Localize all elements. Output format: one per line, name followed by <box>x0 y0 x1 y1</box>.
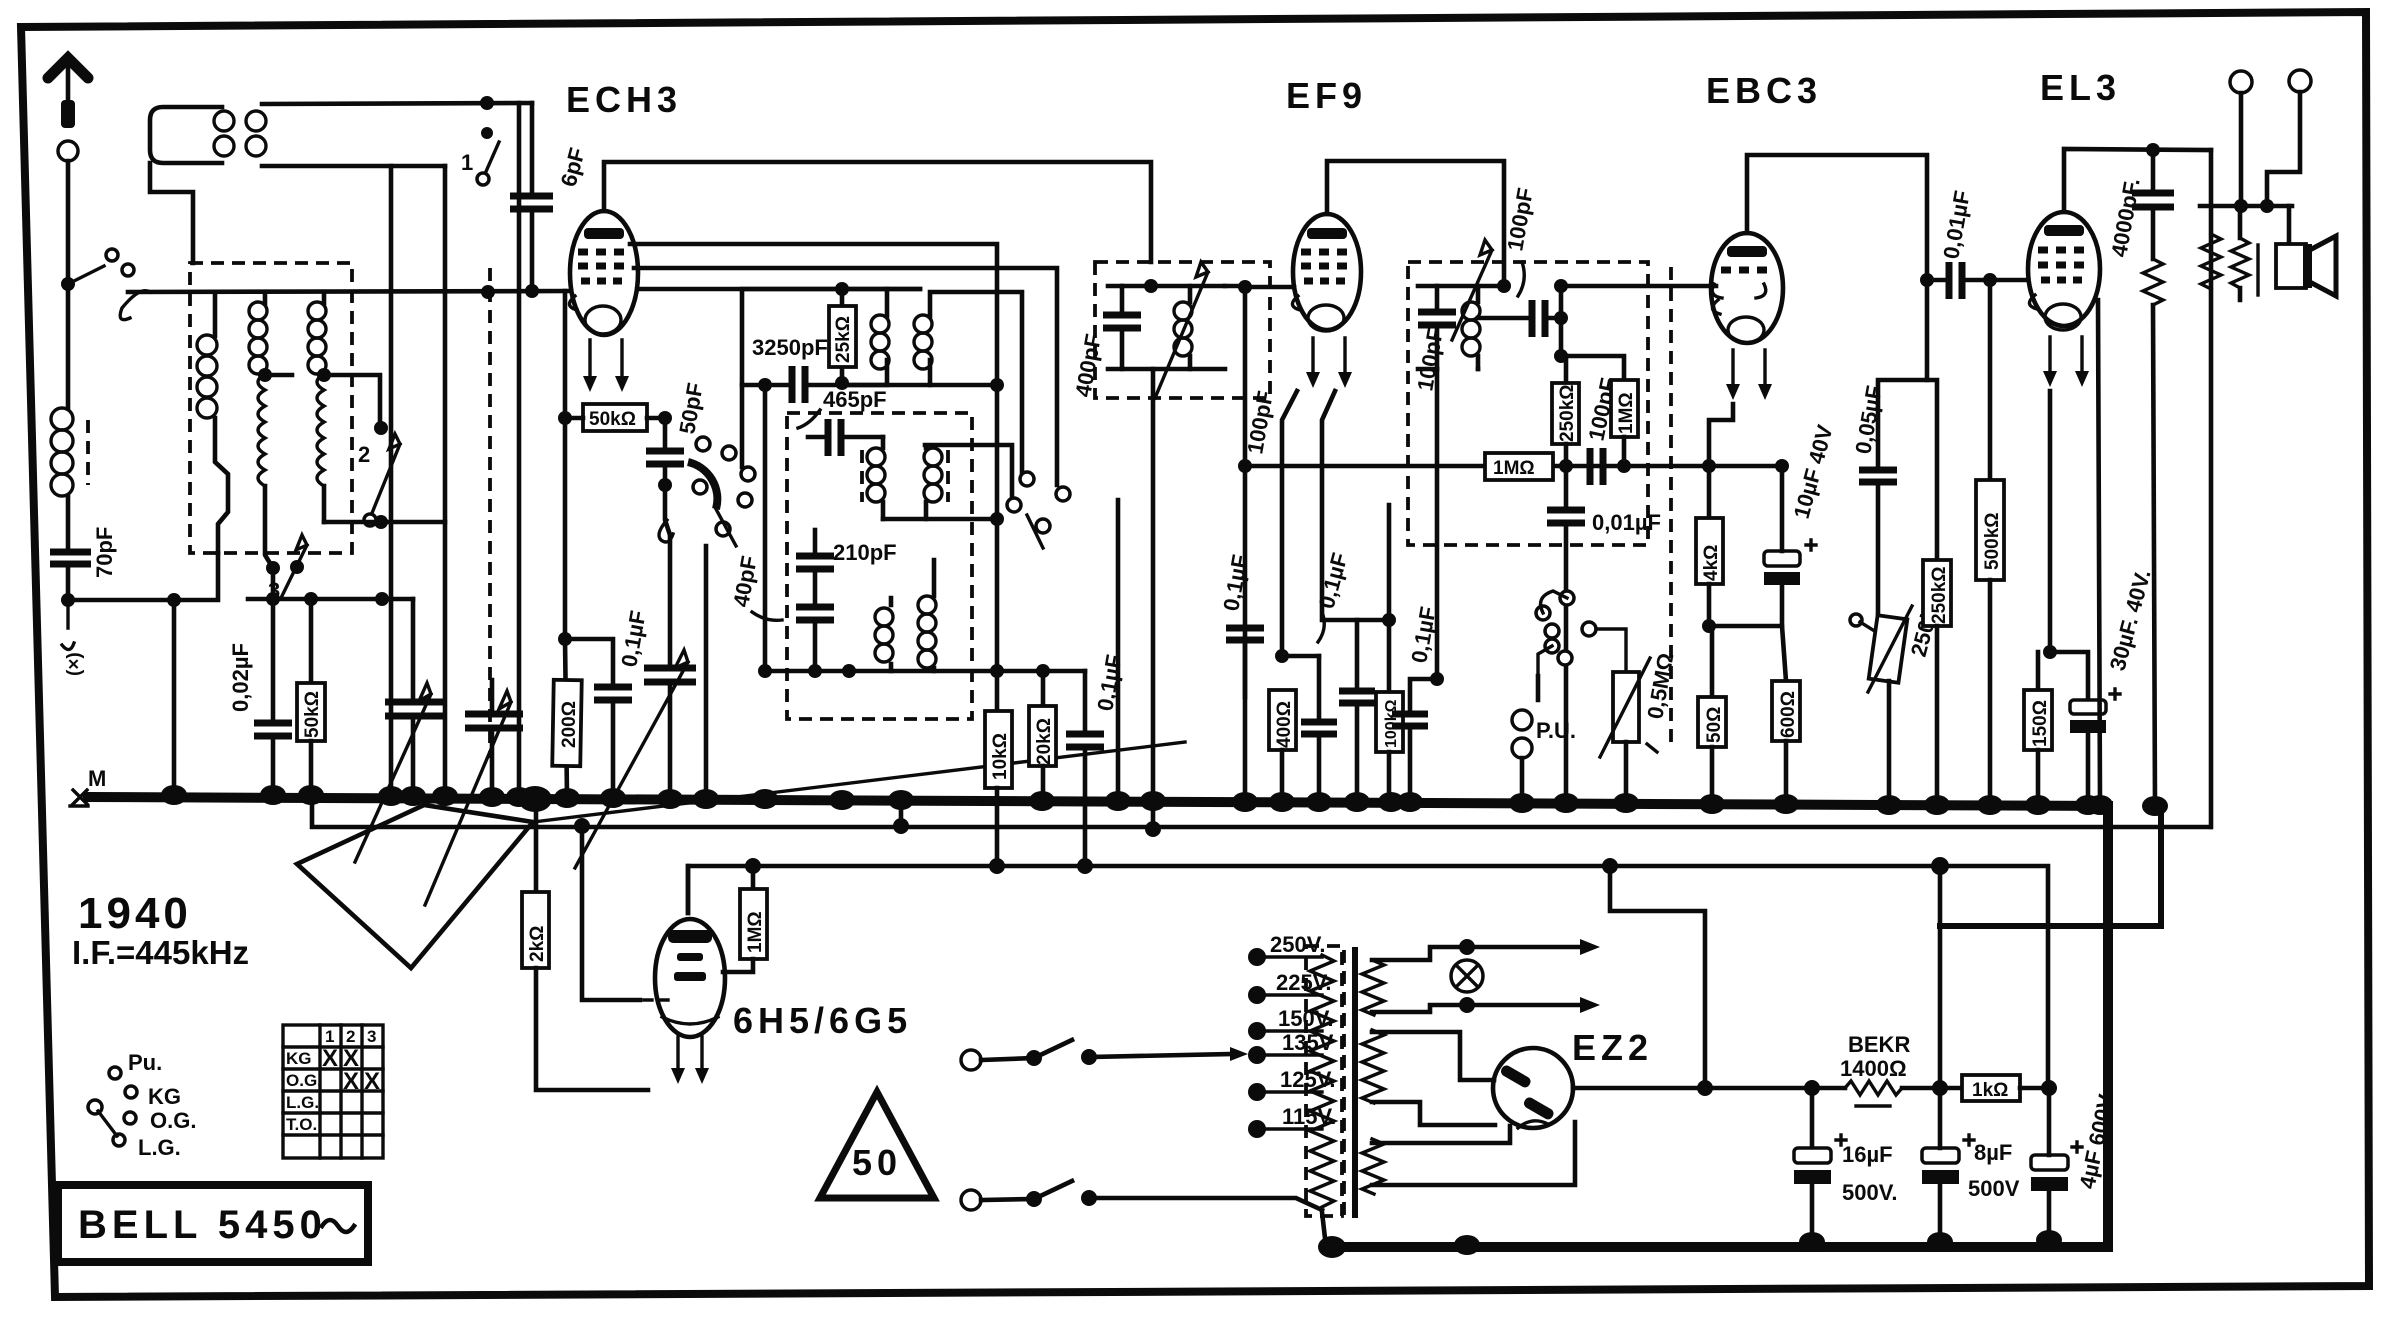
capacitor 30uF 40V <box>2050 652 2088 700</box>
wire thick elbow <box>1940 808 2161 926</box>
IF2 trimmer arrow <box>1452 240 1492 340</box>
wire ECH3 osc grid line <box>634 268 1057 485</box>
wire secondary top edge <box>262 103 532 104</box>
terminal 1 <box>2230 71 2252 93</box>
svg-text:70pF: 70pF <box>92 527 117 578</box>
svg-text:O.G.: O.G. <box>286 1071 322 1090</box>
polarity marks <box>1806 540 2120 1152</box>
wire EF9 plate top <box>1327 161 1504 286</box>
potentiometer 0.5MOhm <box>1613 672 1639 742</box>
resistor tone zigzag <box>2143 259 2163 305</box>
IF1 trimmer arrow <box>1155 262 1208 398</box>
junction dots on M bus <box>161 785 2168 816</box>
variable capacitor VC3 osc <box>668 535 673 666</box>
wire node to RC <box>1561 318 1624 380</box>
coil padder section B <box>918 596 936 668</box>
svg-text:L.G.: L.G. <box>286 1093 319 1112</box>
antenna terminal <box>58 141 78 161</box>
svg-text:O.G.: O.G. <box>150 1108 196 1133</box>
svg-text:400Ω: 400Ω <box>1274 701 1295 748</box>
wire AF line y466 <box>1245 464 1782 469</box>
svg-text:BEKR: BEKR <box>1848 1032 1910 1057</box>
junction dots on B+ line <box>745 857 1949 875</box>
svg-text:25kΩ: 25kΩ <box>833 316 854 363</box>
switch 4 contacts <box>1020 472 1034 486</box>
svg-text:6H5/6G5: 6H5/6G5 <box>733 1000 912 1041</box>
svg-text:50kΩ: 50kΩ <box>589 409 636 430</box>
resistor 400R <box>1269 690 1296 750</box>
wire ECH3 plate to top <box>604 162 1151 262</box>
capacitor 70pF <box>50 552 91 564</box>
resistor 2kOhm <box>534 810 539 892</box>
capacitor 0.1uF cathode <box>565 639 613 684</box>
heater winding <box>1362 960 1384 1015</box>
wire grid line y291 <box>128 291 571 292</box>
resistor 150R <box>2036 652 2041 690</box>
wire B+ line <box>688 866 2048 1087</box>
wire left vertical to bus <box>389 166 394 796</box>
resistor 1MOhm det <box>1611 380 1638 437</box>
wire IF1 secondary to EF9 grid <box>1225 286 1245 697</box>
resistor field coil zigzag <box>2201 234 2221 289</box>
transformer primary winding <box>1310 955 1334 1207</box>
svg-text:210pF: 210pF <box>833 540 897 565</box>
dashed box oscillator padder <box>787 413 972 719</box>
wire IF1 bottom to B+ <box>1151 369 1156 806</box>
dots on ground loop <box>1318 1230 2062 1258</box>
svg-text:0,02µF: 0,02µF <box>228 643 253 712</box>
PU jack <box>1512 710 1532 730</box>
svg-text:EL3: EL3 <box>2040 67 2121 108</box>
svg-text:ECH3: ECH3 <box>566 79 682 120</box>
switch table <box>283 1025 383 1158</box>
resistor 10kOhm <box>995 671 1000 711</box>
wire EZ2 cathode out <box>1573 1086 1705 1091</box>
wire ECH3 g2 line <box>630 244 997 671</box>
svg-text:50Ω: 50Ω <box>1704 707 1725 743</box>
aerial secondary racetrack <box>246 111 266 156</box>
IF transformer 2 dashed can + detector box <box>1408 262 1648 545</box>
svg-text:1MΩ: 1MΩ <box>1616 392 1637 434</box>
wire diode to EBC3 grid <box>1561 286 1716 318</box>
rotary bandswitch osc <box>659 437 755 546</box>
aerial coupling transformer left racetrack <box>150 107 222 163</box>
wire screen dropper x1118 <box>1116 500 1121 801</box>
node bus left mark <box>70 790 88 806</box>
voice coil zigzag <box>2231 238 2249 288</box>
resistor 100kOhm <box>1387 620 1392 692</box>
stub bus to second bus <box>901 806 1153 829</box>
wire B+ riser from 8uF node <box>1938 866 1943 1087</box>
svg-text:150Ω: 150Ω <box>2030 700 2051 747</box>
svg-text:1: 1 <box>461 150 473 175</box>
gang long diagonal <box>533 742 1185 822</box>
wavetrap coil <box>66 292 71 408</box>
resistor 4kOhm <box>1696 518 1723 584</box>
wire junction row y599 <box>248 597 413 602</box>
svg-text:500kΩ: 500kΩ <box>1982 512 2003 570</box>
capacitor 8uF 500V <box>1922 1148 1959 1163</box>
wire cathode to 200R <box>565 418 567 796</box>
svg-text:L.G.: L.G. <box>138 1135 181 1160</box>
coil antenna primary <box>213 292 218 336</box>
mains switch upper <box>961 1050 981 1070</box>
svg-text:X: X <box>322 1045 338 1072</box>
node ground stub marks <box>61 593 75 607</box>
tube ECH3 <box>569 211 638 392</box>
resistor 600R <box>1782 626 1786 681</box>
resistor 250kOhm detector <box>1564 356 1569 383</box>
resistor 200R <box>552 680 581 766</box>
svg-text:225V.: 225V. <box>1276 970 1331 995</box>
switch PU/radio <box>1536 591 1626 676</box>
heater arrows <box>1372 947 1583 960</box>
gang arrow VC3 <box>575 650 688 868</box>
svg-text:M: M <box>88 766 106 791</box>
wire EL3 plate top <box>2064 149 2211 210</box>
wire EBC3 cathode to 4k <box>1709 404 1733 518</box>
wire osc mid row <box>883 517 997 522</box>
coil IF osc upper pair <box>883 437 1012 519</box>
wire 6H5 target <box>686 866 691 913</box>
svg-text:X: X <box>343 1068 359 1095</box>
terminal 2 <box>2289 70 2311 92</box>
svg-text:3: 3 <box>367 1027 376 1046</box>
wire EF9 suppressor <box>1322 391 1389 620</box>
svg-text:2kΩ: 2kΩ <box>527 926 548 962</box>
resistor 250kOhm <box>1927 380 1937 560</box>
wire antenna bottom link <box>68 553 218 600</box>
wire EZ2 plates from HV <box>1372 1032 1494 1080</box>
wire osc bottom row <box>765 669 1085 674</box>
HV winding <box>1362 1030 1384 1103</box>
mains switch lower <box>961 1190 981 1210</box>
svg-text:50: 50 <box>852 1142 902 1183</box>
svg-text:3250pF: 3250pF <box>752 335 828 360</box>
wire secondary bottom edge <box>262 164 445 169</box>
coil IF2 <box>1476 286 1481 369</box>
transformer core <box>1342 950 1346 1215</box>
resistor 500kOhm grid <box>1988 280 1993 480</box>
svg-text:1400Ω: 1400Ω <box>1840 1056 1907 1081</box>
wire racetrack down-link <box>150 163 193 263</box>
capacitor 100pF detector coupling <box>1478 316 1528 321</box>
resistor 50kOhm cathode <box>558 411 572 425</box>
dots second bus <box>574 818 1161 837</box>
capacitor 6pF <box>530 103 535 193</box>
gang linkage kite <box>297 805 533 968</box>
wire cathode lead <box>563 291 568 418</box>
svg-text:16µF: 16µF <box>1842 1142 1893 1167</box>
svg-text:Pu.: Pu. <box>128 1050 162 1075</box>
dash shield line <box>488 268 492 758</box>
pilot lamp <box>1451 960 1483 992</box>
wire second bus <box>312 801 2210 827</box>
antenna change-over switch <box>61 277 75 291</box>
BELL nameplate <box>58 1185 368 1262</box>
potentiometer 250kOhm tone <box>1869 615 1908 683</box>
svg-text:2: 2 <box>346 1027 355 1046</box>
rectifier filament winding <box>1362 1139 1384 1194</box>
wire EL3 screen <box>2098 300 2100 803</box>
svg-text:20kΩ: 20kΩ <box>1034 718 1055 765</box>
coil MW secondary <box>263 292 268 303</box>
dash AF shield line <box>1669 267 1673 745</box>
resistor 1MOhm AF series <box>1485 453 1553 480</box>
svg-text:2: 2 <box>358 442 370 467</box>
svg-text:X: X <box>364 1068 380 1095</box>
capacitor 4uF 600V <box>2031 1155 2068 1170</box>
svg-text:250kΩ: 250kΩ <box>1929 566 1950 624</box>
resistor 50R <box>1710 626 1715 697</box>
capacitor 0.01uF detector <box>1564 466 1569 507</box>
svg-text:1: 1 <box>325 1027 334 1046</box>
wire long vertical from secondary <box>443 166 448 796</box>
coil IF1 <box>1188 286 1193 369</box>
svg-text:BELL 5450: BELL 5450 <box>78 1203 327 1247</box>
coil osc secondary <box>930 292 1022 478</box>
svg-text:600Ω: 600Ω <box>1778 691 1799 738</box>
antenna symbol <box>48 58 88 78</box>
wire IF1 wiring <box>1108 286 1225 369</box>
tube EBC3 <box>1711 233 1783 400</box>
resistor 50kOhm antenna <box>309 599 314 683</box>
resistor 1kOhm <box>1940 1086 1962 1091</box>
wire speaker link <box>2209 150 2214 827</box>
wire ECH3 g1 internal to 289 <box>638 287 920 292</box>
capacitor 10uF 40V <box>1709 585 1782 626</box>
triangle 50 <box>820 1092 934 1198</box>
wire grid feed <box>582 827 640 1000</box>
dashed box aerial coils <box>190 263 352 553</box>
coil LW secondary <box>322 292 327 303</box>
tube EZ2 <box>1493 1048 1573 1128</box>
wire EBC3 plate <box>1747 155 1927 280</box>
tube EL3 <box>2028 212 2100 387</box>
wire to bus <box>172 600 177 795</box>
coil osc primary <box>842 289 887 385</box>
capacitor 100pF series <box>1590 448 1603 485</box>
wire coil bottom row <box>324 520 445 525</box>
svg-text:(×): (×) <box>64 652 85 676</box>
variable capacitor VC2 <box>465 714 523 728</box>
gang arrow VC1 <box>355 683 431 862</box>
svg-text:P.U.: P.U. <box>1536 718 1576 743</box>
svg-text:500V: 500V <box>1968 1176 2020 1201</box>
wire EZ2 filament <box>1372 1122 1575 1185</box>
svg-text:50kΩ: 50kΩ <box>302 691 323 738</box>
IF transformer 1 dashed can <box>1095 262 1270 398</box>
speaker <box>2287 206 2292 244</box>
svg-text:1MΩ: 1MΩ <box>745 911 766 953</box>
capacitor 0.1uF IF2 <box>1435 369 1440 679</box>
voltage taps <box>1248 948 1266 1138</box>
wire EF9 cathode <box>1282 391 1297 656</box>
coil padder section A <box>875 608 893 662</box>
resistor 20kOhm <box>1041 671 1046 706</box>
node coil taps <box>258 368 272 382</box>
svg-text:EZ2: EZ2 <box>1572 1027 1653 1068</box>
tube 6H5 <box>655 919 725 1084</box>
wire ground loop thick <box>1332 806 2108 1247</box>
wire EL3 cathode <box>2048 391 2053 652</box>
svg-text:10kΩ: 10kΩ <box>990 733 1011 780</box>
capacitor 16uF 500V <box>1810 1088 1815 1148</box>
wire 706 to bus <box>704 546 709 799</box>
svg-text:I.F.=445kHz: I.F.=445kHz <box>72 934 249 971</box>
svg-text:4kΩ: 4kΩ <box>1701 545 1722 581</box>
resistor 1MOhm eye <box>751 866 756 889</box>
svg-text:0,01µF: 0,01µF <box>1592 510 1661 535</box>
wire antenna lead <box>66 161 71 284</box>
svg-text:250kΩ: 250kΩ <box>1557 384 1578 442</box>
svg-text:KG: KG <box>148 1084 181 1109</box>
svg-text:8µF: 8µF <box>1974 1140 2012 1165</box>
wire long vertical x520 <box>517 103 522 797</box>
wire osc grid top row <box>742 289 920 467</box>
svg-text:200Ω: 200Ω <box>559 701 580 748</box>
svg-text:T.O.: T.O. <box>286 1115 317 1134</box>
svg-text:EF9: EF9 <box>1286 75 1367 116</box>
svg-text:KG: KG <box>286 1049 312 1068</box>
tube EF9 <box>1292 214 1361 388</box>
capacitor 0.01uF coupling <box>1920 273 1934 287</box>
gang arrow VC2 <box>425 691 511 905</box>
svg-text:1kΩ: 1kΩ <box>1972 1080 2008 1101</box>
svg-text:500V.: 500V. <box>1842 1180 1897 1205</box>
svg-text:1940: 1940 <box>78 889 192 938</box>
variable capacitor VC1 <box>411 599 416 699</box>
wire M ground bus <box>88 797 2108 806</box>
resistor 25kOhm <box>835 282 849 296</box>
svg-text:1MΩ: 1MΩ <box>1493 458 1535 479</box>
svg-text:EBC3: EBC3 <box>1706 70 1822 111</box>
svg-text:465pF: 465pF <box>823 387 887 412</box>
